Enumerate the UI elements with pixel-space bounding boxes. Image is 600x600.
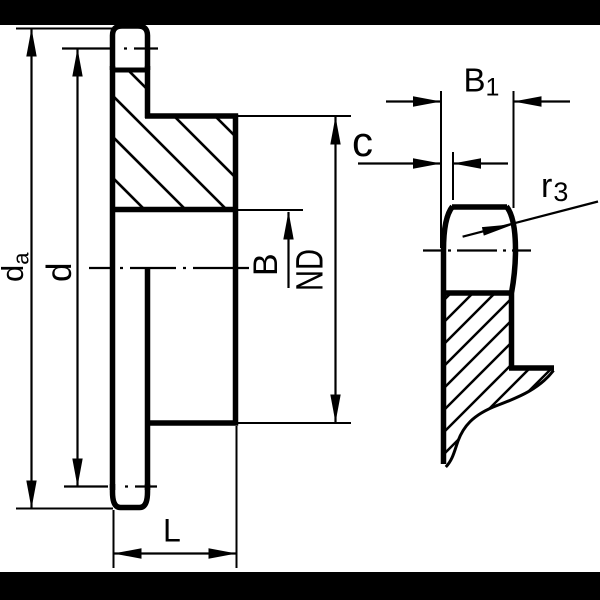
extension line hub bottom (for ND) [238, 422, 351, 424]
tooth centerline [423, 249, 535, 251]
label c [352, 118, 373, 165]
dimension B1 [386, 96, 570, 106]
tooth profile outline [444, 207, 516, 465]
label B1 [464, 62, 500, 102]
label ND [290, 249, 332, 291]
dimension da [26, 29, 36, 509]
dimension L (hub length) [114, 548, 237, 558]
hatching of tooth section [434, 180, 564, 486]
dimension ND (hub diameter) [330, 117, 340, 423]
label d [40, 263, 79, 282]
extension line da bottom [16, 508, 113, 510]
bottom black border band [0, 572, 600, 600]
extension line B1 left [440, 91, 442, 248]
extension line c right [452, 152, 454, 200]
extension line B1 right [513, 91, 515, 208]
plate step line [509, 365, 554, 371]
hub right edge [233, 114, 239, 426]
top tooth outline [113, 26, 148, 70]
extension line L left [113, 510, 115, 568]
bottom tooth pitch centerline [64, 485, 157, 487]
svg-text:B: B [247, 253, 285, 276]
label da [0, 252, 34, 282]
dimension d [72, 49, 82, 487]
hub bottom line [145, 420, 238, 426]
tooth root line [441, 290, 514, 296]
plate left edge [110, 66, 116, 490]
label L [163, 513, 181, 549]
hub face line below axis [145, 268, 151, 490]
extension line hub top (for ND) [238, 115, 351, 117]
svg-text:d: d [40, 263, 79, 282]
extension line bore top (for B) [238, 209, 303, 211]
hub top line [145, 113, 238, 119]
main horizontal axis centerline [89, 267, 249, 269]
leader line r3 [463, 202, 598, 237]
top black border band [0, 0, 600, 25]
label r3 [541, 167, 568, 207]
top tooth root line [110, 68, 150, 73]
bore top line [110, 207, 238, 213]
dimension c [358, 158, 508, 168]
label B [247, 253, 285, 276]
svg-text:ND: ND [290, 249, 332, 291]
extension line L right [236, 426, 238, 568]
plate right edge upper [145, 66, 151, 118]
extension line da top [16, 28, 113, 30]
break line curve [446, 371, 554, 468]
dimension B (bore, single arrow) [283, 212, 293, 289]
svg-text:L: L [163, 513, 181, 549]
hatching of left section [0, 0, 314, 215]
top tooth pitch centerline [62, 47, 158, 49]
svg-text:c: c [352, 118, 373, 165]
bottom tooth outline [113, 484, 148, 508]
